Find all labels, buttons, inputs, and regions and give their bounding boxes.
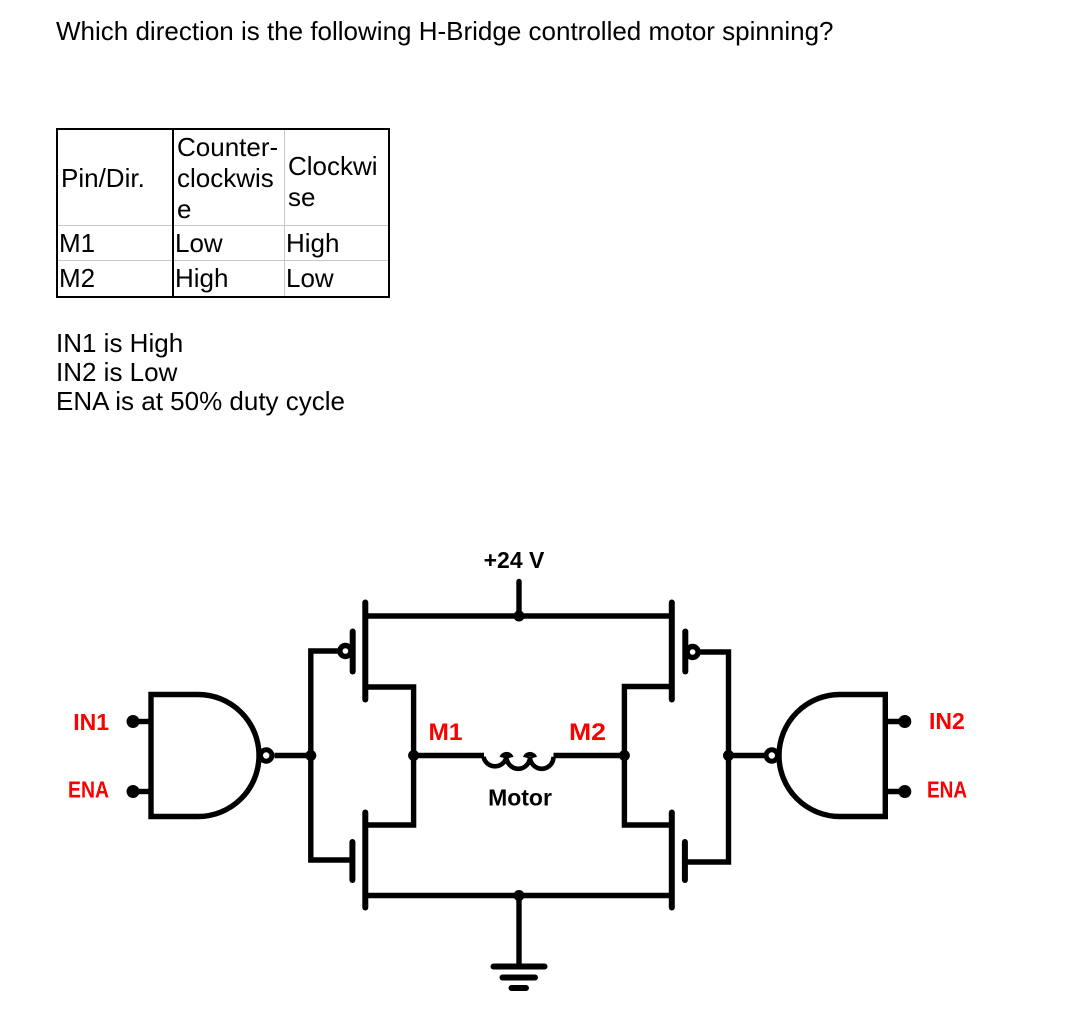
svg-text:ENA: ENA — [927, 777, 967, 803]
svg-text:M2: M2 — [569, 719, 606, 746]
svg-text:ENA: ENA — [68, 777, 109, 803]
svg-text:+24 V: +24 V — [484, 547, 545, 573]
svg-text:IN1: IN1 — [73, 709, 109, 735]
svg-text:IN2: IN2 — [929, 708, 965, 734]
svg-text:Motor: Motor — [488, 785, 552, 811]
svg-text:M1: M1 — [429, 719, 463, 746]
